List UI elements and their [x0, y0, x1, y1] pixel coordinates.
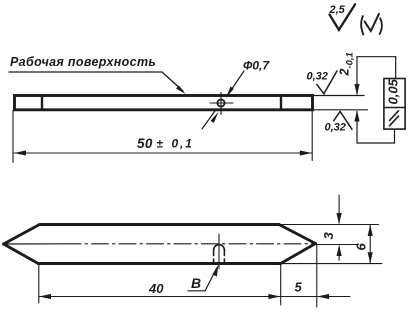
dim 50 right extension line — [311, 111, 313, 161]
svg-text:±: ± — [157, 139, 164, 151]
dim 3 lower line — [338, 246, 340, 260]
dim 40 left arrowhead — [39, 294, 51, 299]
leader F0.7 lower line — [202, 110, 216, 130]
hole circle F0.7 — [217, 99, 224, 106]
hole crosshair vertical — [220, 93, 222, 115]
frame connector top horizontal — [357, 56, 396, 58]
leader F0.7 lower arrowhead — [211, 112, 219, 123]
surface finish symbol 2.5 check — [330, 4, 356, 30]
text: // in frame rotated — [390, 111, 399, 126]
frame connector bottom vertical — [394, 129, 396, 143]
dim 2-0.1 upper arrowhead (down) — [354, 84, 359, 95]
hole view B: left leg dashes — [213, 250, 215, 256]
dim 2-0.1 upper dimension line — [356, 57, 358, 94]
dim 3 upper line — [338, 195, 340, 223]
svg-text:3: 3 — [321, 232, 336, 240]
frame connector top vertical — [395, 57, 397, 79]
plan bottom edge extension right — [283, 263, 382, 265]
label: working surface leader diagonal — [162, 72, 183, 91]
dim 40-5 dimension line — [40, 296, 351, 298]
roughness mark 0.32 upper check — [317, 71, 337, 94]
svg-text:0,05: 0,05 — [386, 78, 401, 104]
label: working surface arrowhead — [176, 85, 186, 94]
svg-text:2,5: 2,5 — [329, 4, 346, 16]
svg-text:40: 40 — [148, 281, 164, 296]
dim 3 lower arrowhead (up) — [337, 245, 342, 256]
plan view: centerline dash-dot — [64, 243, 316, 245]
svg-text:5: 5 — [295, 280, 303, 295]
svg-text:2-0,1: 2-0,1 — [338, 52, 356, 76]
dim 6 lower arrowhead (down) — [368, 252, 373, 263]
label: working surface leader underline — [9, 71, 162, 73]
side view: right divider line — [280, 96, 282, 110]
other-surfaces symbol: small check — [365, 14, 379, 31]
plan view: right tip lower taper — [281, 244, 316, 264]
dim 50 left extension line — [12, 110, 14, 163]
plan view: left point lower taper — [4, 244, 39, 264]
plan view: left point upper taper — [4, 225, 40, 245]
dim 5 right extension line — [316, 245, 318, 307]
side view: left divider line — [41, 96, 43, 110]
plan tip level extension right — [316, 244, 359, 246]
svg-text:Рабочая поверхность: Рабочая поверхность — [10, 55, 156, 69]
plan view: centerline solid start at apex — [4, 243, 64, 245]
dim 5 right-pointing-left arrowhead — [317, 294, 329, 299]
dim 50 dimension line — [14, 152, 312, 154]
dim 50 left arrowhead — [14, 150, 26, 155]
svg-text:В: В — [191, 275, 201, 291]
dim 3 upper arrowhead (down) — [337, 213, 342, 224]
dim 40/5 middle extension line — [280, 265, 282, 305]
dim 6 upper arrowhead (up) — [368, 225, 373, 236]
view B leader underline — [188, 290, 205, 292]
view B leader diagonal — [205, 269, 216, 291]
dim 40 right arrowhead — [268, 294, 280, 299]
plan view: bottom edge — [38, 262, 281, 265]
dim 40 left extension line — [38, 264, 40, 303]
view B leader arrowhead — [212, 265, 218, 277]
svg-text:0,32: 0,32 — [307, 71, 328, 83]
hole view B: right leg dashes — [223, 250, 225, 256]
tolerance frame divider — [384, 107, 405, 109]
svg-text:6: 6 — [354, 243, 369, 251]
hole view B: vertical centerline — [218, 234, 220, 269]
side view bottom surface extension to right — [313, 109, 368, 111]
plan view: top edge — [40, 223, 280, 226]
dim 6 dimension line — [369, 225, 371, 263]
dim 2-0.1 lower dimension line — [356, 112, 358, 144]
roughness mark 0.32 lower check — [334, 112, 352, 130]
other-surfaces symbol: right parenthesis — [380, 18, 382, 34]
dim 50 right arrowhead — [300, 150, 312, 155]
svg-text:0,32: 0,32 — [325, 122, 346, 134]
side view: bar outline — [15, 96, 313, 110]
other-surfaces symbol: left parenthesis — [361, 16, 363, 34]
leader F0.7 upper line — [228, 71, 244, 95]
hole crosshair horizontal — [210, 102, 233, 104]
hole view B: arc top — [214, 245, 225, 250]
svg-text:50: 50 — [137, 136, 153, 151]
leader F0.7 upper arrowhead — [226, 87, 234, 99]
svg-text:0,1: 0,1 — [172, 137, 194, 151]
tolerance frame box — [384, 79, 405, 130]
plan top edge extension right — [281, 224, 379, 226]
svg-text:Ф0,7: Ф0,7 — [243, 59, 270, 73]
frame connector bottom horizontal — [357, 142, 395, 144]
plan view: right tip upper taper — [279, 225, 316, 244]
side view top surface extension to right — [313, 95, 364, 97]
dim 2-0.1 lower arrowhead (up) — [354, 110, 359, 121]
